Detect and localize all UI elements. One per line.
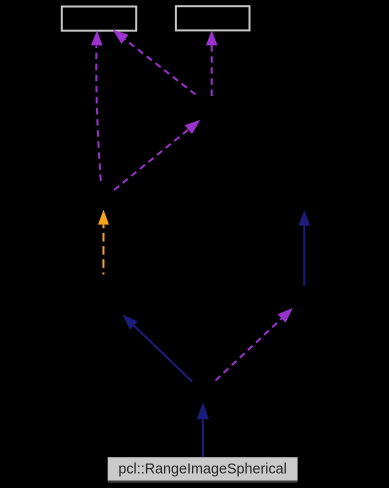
svg-text:pcl::RangeImageSpherical: pcl::RangeImageSpherical xyxy=(118,461,287,477)
